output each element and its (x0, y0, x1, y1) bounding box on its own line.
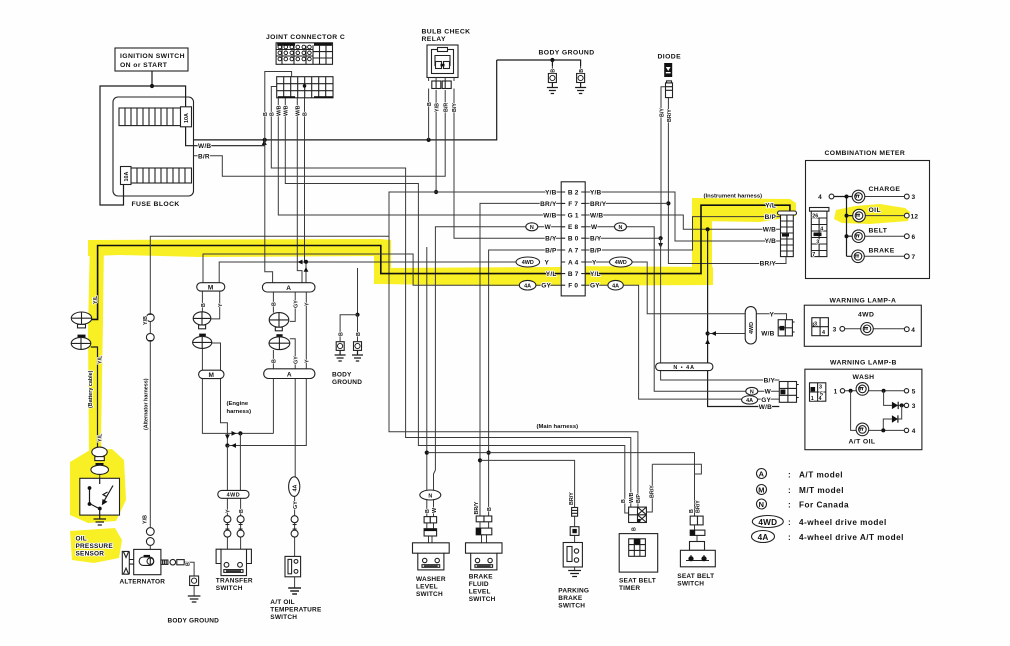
wire instrument connector bottom stub (785, 257, 787, 264)
combination meter box (806, 161, 930, 279)
wire Y/B row right to instrument connector (585, 192, 780, 241)
svg-text:4: 4 (820, 227, 823, 233)
svg-text:W/B: W/B (761, 330, 774, 337)
svg-text:B: B (427, 102, 433, 106)
svg-text:WASH: WASH (853, 374, 875, 381)
lamp OIL (853, 209, 909, 222)
node B/P main harness junction (487, 451, 491, 455)
legend 4WD oval (752, 516, 783, 528)
wire seat belt switch connector runs (695, 525, 698, 544)
svg-text:WARNING LAMP-A: WARNING LAMP-A (830, 297, 897, 304)
svg-text:B/Y: B/Y (545, 236, 557, 243)
warning lamp A 4WD lamp (834, 323, 910, 336)
svg-text:B: B (425, 509, 431, 513)
wire joint connector B wire 2 (271, 87, 631, 508)
svg-text:4WD: 4WD (749, 322, 755, 334)
svg-text:A: A (286, 285, 291, 292)
svg-text:N: N (750, 389, 754, 395)
svg-text:B: B (186, 562, 192, 566)
washer level switch body (413, 543, 450, 570)
svg-text:WARNING LAMP-B: WARNING LAMP-B (830, 360, 897, 367)
4A oval warning lamp B (742, 396, 758, 404)
wire A pill Y to cluster (227, 292, 306, 446)
svg-text:Y/L: Y/L (98, 355, 104, 364)
svg-text:GY: GY (294, 300, 300, 308)
lamp BELT (852, 230, 909, 243)
wire B/Y row right (585, 238, 779, 380)
lamp BRAKE (852, 250, 909, 263)
seat belt timer box (619, 534, 658, 573)
warning lamp B diode 1 (884, 391, 909, 409)
svg-text:3: 3 (912, 403, 916, 410)
svg-text:BRAKE: BRAKE (869, 248, 895, 255)
wire alternator harness top run (150, 236, 389, 313)
svg-text:BR/Y: BR/Y (540, 201, 557, 208)
wire B/P row right to instrument (585, 217, 780, 250)
svg-text:A/T OIL: A/T OIL (849, 439, 876, 446)
wire A pill GY lower to A/T oil temp (290, 339, 295, 477)
svg-text:Y/B: Y/B (765, 238, 777, 245)
warning lamp A box (804, 305, 921, 346)
svg-text:B: B (303, 112, 309, 116)
wire A pill B leg (272, 292, 274, 313)
svg-text:B: B (338, 332, 344, 336)
mid body ground symbol 1 (335, 342, 346, 361)
warning lamp A outside connector (778, 320, 794, 336)
svg-text:SWITCH: SWITCH (416, 591, 443, 598)
node relay Y/B joins Y/B row (434, 190, 438, 194)
bulb check relay box (427, 45, 458, 78)
svg-text:N: N (619, 225, 623, 231)
svg-text:BRAKE: BRAKE (469, 574, 494, 581)
N-4A pill (656, 363, 713, 371)
node mid body ground junction (355, 313, 359, 317)
svg-text:4WD: 4WD (858, 312, 874, 319)
bulb check relay pin connectors (429, 78, 454, 91)
svg-text:Y/L: Y/L (93, 295, 99, 304)
node BR/Y main harness junction (478, 458, 482, 462)
node diode B/Y at B0 row (659, 236, 663, 240)
highlight: Y/L step down (374, 243, 391, 284)
mid body ground symbol 2 (352, 342, 363, 361)
svg-text:SWITCH: SWITCH (270, 614, 297, 621)
wire mid body ground left branch (340, 315, 357, 342)
M column connector circle 1 (193, 312, 211, 329)
wire B/R from fuse to bulb check relay (194, 90, 446, 176)
svg-text:W/B: W/B (543, 212, 556, 219)
wire ignition to top fuse (152, 86, 186, 108)
svg-text:GY: GY (293, 501, 299, 509)
wire joint connector B wire 1 (through A pill) (265, 72, 292, 283)
wire Y/L row left highlighted run to oil pressure sensor (92, 246, 562, 320)
svg-text:Y: Y (218, 303, 224, 307)
svg-text:4-wheel drive model: 4-wheel drive model (799, 518, 887, 527)
svg-text:B 2: B 2 (568, 189, 579, 196)
wire body ground stub 1 (551, 60, 553, 66)
ignition switch box (115, 48, 188, 71)
svg-text:Y/B: Y/B (434, 103, 440, 112)
warning lamp B outside connector (779, 382, 798, 403)
svg-text:3: 3 (912, 194, 916, 201)
svg-text:A 7: A 7 (568, 247, 579, 254)
central connector pin stubs (561, 192, 585, 285)
transfer switch body (216, 549, 251, 575)
svg-text:W: W (765, 389, 772, 396)
legend M circle (757, 485, 767, 495)
A pill 2 (264, 369, 315, 379)
svg-text:FUSE BLOCK: FUSE BLOCK (132, 201, 180, 208)
wire W row left (Canada washer) (434, 227, 562, 490)
svg-text:7: 7 (912, 254, 916, 261)
svg-text:4: 4 (822, 330, 825, 336)
alternator pulley (122, 551, 133, 574)
svg-text:W/B: W/B (590, 212, 603, 219)
svg-text:BELT: BELT (869, 228, 888, 235)
parking brake inline connector (570, 508, 579, 536)
node W/B rail at relay B (427, 138, 431, 142)
wire diode B/Y leg (661, 87, 666, 239)
arrow W/B pill marker (711, 331, 716, 336)
svg-text:Y/L: Y/L (98, 433, 104, 442)
washer level switch connectors (424, 517, 437, 536)
wire joint connector W/B wire 3 (to G1 row) (278, 98, 561, 215)
svg-text:Y/L: Y/L (765, 202, 776, 209)
connector circles alternator harness (146, 314, 154, 322)
wire bulb relay Y/B (435, 90, 437, 192)
svg-text:W/B: W/B (759, 404, 772, 411)
arrow W/B joins rail (262, 140, 267, 146)
svg-text:3: 3 (814, 322, 817, 328)
N oval warning lamp B (746, 387, 758, 395)
svg-text:4: 4 (912, 428, 916, 435)
svg-text:FLUID: FLUID (469, 581, 489, 588)
svg-text:B/P: B/P (545, 247, 557, 254)
svg-text:B/P: B/P (636, 494, 642, 503)
wire alternator harness middle (149, 322, 151, 334)
brake fluid level switch body (466, 543, 503, 570)
combination meter bus (829, 194, 853, 256)
svg-text:B: B (270, 112, 276, 116)
node ignition junction (150, 84, 154, 88)
body ground top symbol 1 (547, 66, 558, 94)
wire diode BR/Y leg down to instrument BR/Y (668, 98, 786, 264)
svg-text:B/Y: B/Y (764, 377, 776, 384)
svg-text:LEVEL: LEVEL (416, 584, 438, 591)
wire BR/Y row left to brake fluid + parking brake (480, 203, 561, 516)
svg-text:JOINT CONNECTOR C: JOINT CONNECTOR C (266, 34, 345, 41)
svg-text:BR/Y: BR/Y (569, 492, 575, 505)
svg-text:W: W (591, 224, 598, 231)
svg-text:ALTERNATOR: ALTERNATOR (120, 579, 166, 586)
wire parking brake feed (480, 460, 575, 507)
wire ignition switch drop (151, 71, 153, 86)
fuse strip top (119, 107, 192, 127)
svg-text:B: B (579, 69, 585, 73)
svg-text::: : (788, 518, 791, 527)
svg-text:For Canada: For Canada (799, 500, 849, 509)
svg-text:E 8: E 8 (568, 224, 579, 231)
joint connector C block 2 (277, 77, 333, 98)
svg-text:TEMPERATURE: TEMPERATURE (270, 607, 322, 614)
node W/B warning lamp A junction (706, 331, 710, 335)
warning lamp B WASH lamp (840, 383, 908, 396)
legend entries (758, 469, 904, 542)
svg-text:B: B (201, 303, 207, 307)
svg-text:3: 3 (833, 326, 837, 333)
svg-text:N • 4A: N • 4A (673, 365, 695, 371)
svg-text:W: W (545, 224, 552, 231)
svg-text:BODY GROUND: BODY GROUND (539, 50, 595, 57)
svg-text:B/R: B/R (198, 153, 210, 160)
svg-text:B/Y: B/Y (590, 236, 602, 243)
svg-text:BULB CHECK: BULB CHECK (422, 29, 471, 36)
svg-text:A/T OIL: A/T OIL (270, 599, 295, 606)
svg-text:B 0: B 0 (568, 236, 579, 243)
svg-text::: : (788, 470, 791, 479)
svg-text:B/R: B/R (443, 103, 449, 112)
svg-text:PARKING: PARKING (558, 588, 589, 595)
oil pressure sensor (80, 478, 120, 525)
svg-text:N: N (530, 225, 534, 231)
diode symbol (664, 63, 672, 98)
svg-text:B: B (487, 507, 493, 511)
svg-text:SWITCH: SWITCH (216, 585, 243, 592)
highlight: combination meter OIL blob (834, 204, 910, 224)
svg-text:DIODE: DIODE (658, 54, 682, 61)
svg-text::: : (788, 533, 791, 542)
wire seat belt switch feed (426, 247, 428, 490)
svg-text:3: 3 (819, 385, 822, 391)
svg-text:A: A (287, 371, 292, 378)
combination meter connector (810, 208, 829, 257)
A/T oil temperature switch body (285, 556, 301, 594)
svg-text:1: 1 (811, 396, 814, 402)
svg-text:(Alternator harness): (Alternator harness) (144, 378, 150, 430)
labels model ovals central connector (522, 225, 627, 289)
svg-text:Y: Y (544, 259, 549, 266)
svg-text:Y: Y (305, 359, 311, 363)
4WD vertical pill (warning lamp A) (745, 307, 756, 344)
A/T oil temp connector circles (291, 516, 298, 537)
svg-text:B/Y: B/Y (659, 108, 665, 117)
svg-text:TIMER: TIMER (619, 585, 640, 592)
svg-text:BR/Y: BR/Y (696, 500, 702, 513)
svg-text:4: 4 (911, 327, 915, 334)
wire M pill Y leg (211, 291, 220, 319)
wire A pill GY leg (290, 292, 295, 321)
oil pressure sensor inline connector (91, 447, 109, 474)
wire Y/L row right highlighted to instrument connector (585, 205, 790, 273)
fuse strip bottom (121, 167, 192, 185)
wire mid body ground right drop (357, 315, 359, 342)
svg-text:Y/B: Y/B (143, 515, 149, 524)
svg-text:4A: 4A (758, 533, 769, 542)
svg-text:LEVEL: LEVEL (469, 589, 491, 596)
fuse block outline (113, 97, 194, 196)
wire Y 4WD pill to connector A (756, 314, 786, 320)
oil pressure line connector circle 1 (71, 312, 91, 328)
warning lamp B inside connector (810, 383, 826, 401)
svg-text:A 4: A 4 (568, 259, 579, 266)
transfer switch Y connector circles (224, 516, 231, 537)
wire mid body ground feed (357, 268, 359, 315)
svg-text:OIL: OIL (76, 536, 87, 543)
wire M pill B lower to 4WD cluster (202, 348, 273, 433)
svg-text:W/B: W/B (277, 105, 283, 116)
wire 4WD pill B drop (239, 433, 241, 490)
svg-text:(Engine: (Engine (227, 401, 249, 407)
svg-text:3: 3 (816, 240, 819, 246)
oil pressure line connector circle 2 (71, 335, 91, 350)
svg-text:GY: GY (590, 283, 600, 290)
svg-text:B: B (272, 359, 278, 363)
wire W/B rail (194, 60, 497, 140)
svg-text:26: 26 (812, 214, 818, 220)
svg-text:COMBINATION METER: COMBINATION METER (825, 150, 906, 157)
wire alternator ground stub (193, 586, 195, 597)
svg-text:OIL: OIL (869, 207, 882, 214)
svg-text:7: 7 (812, 252, 815, 258)
svg-text:Y: Y (592, 259, 597, 266)
wire W row right to warning lamp B (585, 227, 779, 391)
svg-text:SWITCH: SWITCH (558, 603, 585, 610)
svg-text:A: A (759, 469, 765, 478)
highlight: Y/L horizontal band upper (88, 239, 391, 257)
node 4WD Y cluster (225, 443, 229, 447)
warning lamp A inside connector (812, 318, 829, 336)
wire W/B row right to instrument + warning lamp B (585, 215, 780, 229)
svg-text:SWITCH: SWITCH (677, 581, 704, 588)
warning lamp B diode 2 (883, 405, 901, 430)
arrow cluster Y marker (231, 443, 236, 448)
wire seat belt timer W/B B/P drops already drawn; BR/Y drop (646, 464, 652, 512)
svg-text:10A: 10A (124, 172, 130, 182)
svg-text:4WD: 4WD (227, 493, 240, 499)
wire W/B from fuse (186, 126, 265, 146)
svg-text:B: B (689, 509, 695, 513)
svg-text:A/T model: A/T model (799, 470, 843, 479)
svg-text:M: M (758, 485, 764, 494)
left 4WD oval (A4) (516, 257, 540, 267)
highlight: instrument harness Y/L + B/P band (692, 198, 796, 222)
wire W/B to 4WD pill (708, 333, 746, 335)
legend 4A oval (752, 531, 775, 543)
arrow A pill feed marker (304, 267, 309, 272)
wire oil pressure sensor ground stub (99, 474, 101, 478)
svg-text:SEAT BELT: SEAT BELT (619, 578, 656, 585)
svg-text:N: N (428, 493, 432, 499)
svg-text:F 0: F 0 (568, 283, 578, 290)
svg-text:TRANSFER: TRANSFER (216, 578, 253, 585)
svg-text:harness): harness) (227, 409, 252, 415)
left 4A oval (F0) (519, 280, 536, 290)
svg-text:4WD: 4WD (615, 260, 627, 266)
labels central connector pins (568, 189, 579, 289)
svg-text:B: B (356, 332, 362, 336)
svg-text:W/B: W/B (763, 227, 776, 234)
labels central connector right wires (590, 189, 607, 289)
svg-text:6: 6 (912, 234, 916, 241)
svg-text:1: 1 (834, 388, 838, 395)
wire W/B vertical to warning lamps (708, 229, 780, 406)
legend N circle (757, 499, 767, 509)
wire joint connector B wire 6 (to Y row dot, A pill) (305, 86, 307, 283)
4WD pill (transfer) (218, 490, 249, 498)
svg-text:B/P: B/P (590, 247, 602, 254)
svg-text:W/B: W/B (284, 105, 290, 116)
svg-text:W/B: W/B (629, 492, 635, 503)
wire parking brake ground stub (574, 567, 576, 571)
right 4WD oval (A4) (610, 257, 633, 267)
svg-text:4: 4 (818, 194, 822, 201)
wire M pill B leg (201, 291, 203, 312)
wire seat belt timer BR/Y horizontal (652, 464, 701, 474)
svg-text:N: N (759, 500, 765, 509)
central connector box (561, 182, 585, 296)
svg-text:ON or START: ON or START (120, 62, 168, 69)
body ground top symbol 2 (575, 66, 586, 94)
svg-text:M: M (208, 285, 214, 292)
svg-text:Y/B: Y/B (590, 189, 602, 196)
seat belt timer connector (629, 507, 647, 522)
highlight: band through connector B7 row (560, 266, 713, 284)
svg-text:RELAY: RELAY (422, 36, 446, 43)
alternator body ground connector (188, 576, 201, 602)
wire GY row left (F0) to M pill (203, 254, 519, 285)
svg-text:10A: 10A (184, 113, 190, 123)
svg-text:Y: Y (769, 311, 774, 318)
alternator output connector (161, 559, 184, 565)
svg-text:Y: Y (226, 509, 232, 513)
washer level switch N oval (420, 490, 441, 500)
wire joint connector W/B wire 4 (285, 98, 628, 513)
node W/B rail at joint connector B (263, 138, 267, 142)
highlight: oil pressure sensor blob (70, 449, 126, 523)
parking brake switch body (563, 543, 582, 577)
lamp CHARGE (852, 190, 909, 203)
svg-text:4A: 4A (524, 283, 531, 289)
arrow W/B down marker (705, 339, 710, 344)
joint connector C block 1 (276, 43, 332, 65)
svg-text:BR/Y: BR/Y (667, 109, 673, 122)
svg-text:Y/B: Y/B (143, 316, 149, 325)
svg-text:Y/L: Y/L (546, 271, 557, 278)
wire ignition to fuse block left bypass (100, 86, 152, 205)
node 4WD B cluster (238, 431, 242, 435)
svg-text:W/B: W/B (296, 105, 302, 116)
svg-text:4A: 4A (612, 283, 619, 289)
svg-text:(Main harness): (Main harness) (537, 424, 579, 430)
arrow B/Y harness marker (658, 243, 663, 248)
svg-text:SWITCH: SWITCH (469, 596, 496, 603)
wire B/P row left to main harness (489, 250, 562, 516)
arrow cluster marker right (232, 431, 237, 436)
svg-text:4-wheel drive A/T model: 4-wheel drive A/T model (799, 533, 904, 542)
highlight: left vertical band to sensor (88, 240, 104, 458)
wire brake fluid switch legs (480, 522, 489, 543)
wire GY stub from connector to 4A oval (536, 284, 561, 286)
svg-text:5: 5 (912, 388, 916, 395)
wire parking brake legs (574, 516, 576, 542)
node Y row to A pill (304, 260, 308, 264)
svg-text:4: 4 (819, 396, 822, 402)
A column connector circle 1 (269, 313, 289, 331)
svg-text:PRESSURE: PRESSURE (76, 543, 114, 550)
svg-text:BODY: BODY (332, 371, 352, 378)
node diode BR/Y at F7 row (666, 201, 670, 205)
svg-text:BRAKE: BRAKE (558, 595, 583, 602)
highlight: oil pressure sensor label blob (70, 528, 122, 563)
